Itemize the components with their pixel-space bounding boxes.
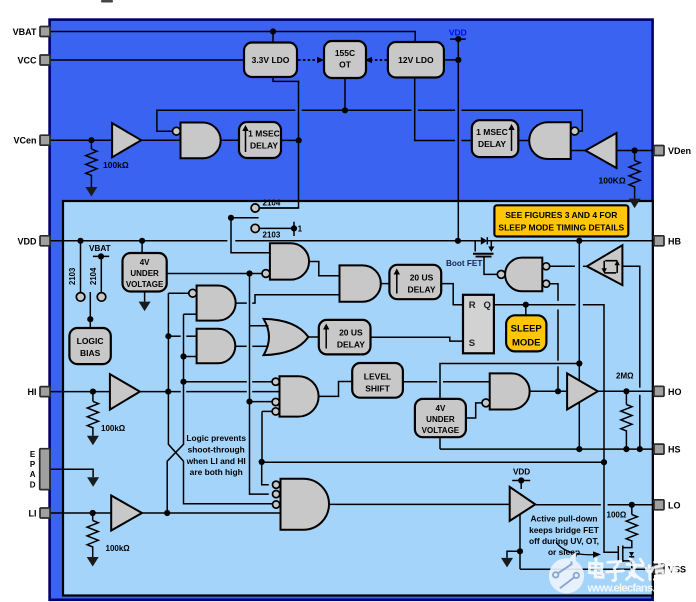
svg-text:when LI and HI: when LI and HI <box>186 456 246 466</box>
svg-text:4V: 4V <box>140 258 150 267</box>
svg-text:SEE FIGURES 3 AND 4 FOR: SEE FIGURES 3 AND 4 FOR <box>505 210 617 220</box>
svg-text:UNDER: UNDER <box>130 269 159 278</box>
svg-text:DELAY: DELAY <box>337 340 365 350</box>
svg-text:20 US: 20 US <box>339 328 363 338</box>
svg-text:off during UV, OT,: off during UV, OT, <box>529 536 599 546</box>
svg-text:DELAY: DELAY <box>407 285 435 295</box>
svg-text:Active pull-down: Active pull-down <box>531 514 598 524</box>
svg-text:1 MSEC: 1 MSEC <box>476 127 508 137</box>
svg-text:LOGIC: LOGIC <box>77 336 104 346</box>
svg-text:UNDER: UNDER <box>426 415 455 424</box>
svg-text:4V: 4V <box>436 404 446 413</box>
svg-text:shoot-through: shoot-through <box>188 445 245 455</box>
svg-text:MODE: MODE <box>512 338 541 349</box>
svg-text:VDD: VDD <box>449 27 467 37</box>
svg-text:SLEEP: SLEEP <box>511 324 543 335</box>
svg-text:D: D <box>30 480 36 489</box>
svg-text:VBAT: VBAT <box>13 27 37 37</box>
svg-text:HB: HB <box>668 236 681 246</box>
svg-text:VCC: VCC <box>17 56 37 66</box>
svg-text:E: E <box>30 450 36 459</box>
svg-text:HI: HI <box>28 387 37 397</box>
svg-text:VBAT: VBAT <box>89 244 111 253</box>
svg-text:2104: 2104 <box>89 267 98 285</box>
svg-text:are both high: are both high <box>190 467 243 477</box>
svg-text:155C: 155C <box>335 48 355 58</box>
svg-text:DELAY: DELAY <box>250 141 278 151</box>
svg-text:100kΩ: 100kΩ <box>101 424 126 433</box>
svg-text:LI: LI <box>29 509 37 519</box>
svg-text:HO: HO <box>668 387 682 397</box>
svg-text:www.elecfans.com: www.elecfans.com <box>587 582 677 594</box>
svg-text:S: S <box>469 338 475 349</box>
svg-text:VDen: VDen <box>668 146 691 156</box>
svg-text:VOLTAGE: VOLTAGE <box>126 280 164 289</box>
svg-text:P: P <box>30 460 36 469</box>
svg-text:1: 1 <box>298 224 303 233</box>
svg-text:100kΩ: 100kΩ <box>106 544 131 553</box>
svg-text:2103: 2103 <box>68 267 77 285</box>
svg-text:VCen: VCen <box>13 136 36 146</box>
svg-text:Logic prevents: Logic prevents <box>186 433 246 443</box>
svg-text:SLEEP MODE TIMING DETAILS: SLEEP MODE TIMING DETAILS <box>498 222 624 232</box>
svg-text:100Ω: 100Ω <box>607 511 627 520</box>
svg-text:keeps bridge FET: keeps bridge FET <box>529 525 600 535</box>
svg-text:1 MSEC: 1 MSEC <box>248 129 280 139</box>
svg-text:LEVEL: LEVEL <box>364 372 391 382</box>
svg-text:20 US: 20 US <box>410 273 434 283</box>
svg-text:100KΩ: 100KΩ <box>599 176 626 186</box>
svg-text:2104: 2104 <box>263 198 281 207</box>
svg-text:SHIFT: SHIFT <box>365 384 390 394</box>
svg-text:3.3V LDO: 3.3V LDO <box>252 55 290 65</box>
svg-text:Q: Q <box>484 300 491 311</box>
svg-text:R: R <box>469 300 476 311</box>
svg-text:100kΩ: 100kΩ <box>103 160 129 170</box>
svg-text:A: A <box>30 470 36 479</box>
svg-text:2MΩ: 2MΩ <box>616 372 634 381</box>
svg-text:12V LDO: 12V LDO <box>398 55 434 65</box>
svg-text:DELAY: DELAY <box>478 139 506 149</box>
svg-text:VDD: VDD <box>17 236 37 246</box>
svg-text:VDD: VDD <box>513 468 530 477</box>
svg-text:OT: OT <box>339 60 352 70</box>
svg-text:LO: LO <box>668 500 681 510</box>
svg-text:Boot FET: Boot FET <box>446 259 482 268</box>
svg-text:2103: 2103 <box>263 230 281 239</box>
svg-text:HS: HS <box>668 445 681 455</box>
svg-text:BIAS: BIAS <box>80 348 101 358</box>
svg-text:VOLTAGE: VOLTAGE <box>422 426 460 435</box>
